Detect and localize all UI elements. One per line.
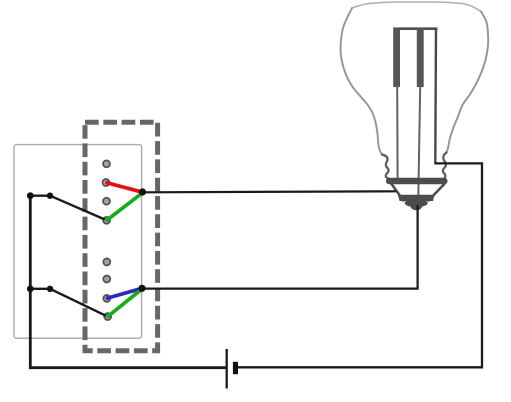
wire: bottom switch junction to bulb tip [142,205,418,289]
S1 green wire from junction to lever contact [107,193,143,220]
battery short thick plate [233,362,238,374]
S2 contact 2 [103,276,110,283]
bulb lead wire left thin [396,86,398,179]
S2 input stub wire [30,288,50,290]
S1 contact 2 (red feed) [103,179,110,186]
S2 selected contact [104,313,111,320]
S2 contact 1 [103,258,110,265]
bulb glass envelope [341,2,489,155]
S2 blue wire to contact 3 [107,288,142,298]
S1 red wire to contact 2 [107,183,143,192]
wire: top switch junction to bulb base [143,191,397,192]
bulb base cone band [398,195,435,201]
top switch S1 [27,160,146,224]
bulb base tip [405,199,428,207]
wire: left common down and along bottom to battery negative [30,196,226,368]
S2 lever [50,289,106,316]
bulb base cone outline [392,184,445,201]
bulb stem right wire [434,28,437,163]
S1 selected contact [103,217,110,224]
S1 stub node dots [27,192,34,199]
switch enclosure box (light grey) [14,145,142,339]
S1 contact 3 [103,198,110,205]
S1 contact 1 [103,160,110,167]
bulb neck screw ridges right [443,153,447,179]
S1 lever [50,196,105,220]
S1 input stub wire [30,194,50,196]
S1 output junction [139,188,146,195]
bulb lead wire middle thin [418,86,420,197]
wire: bulb side to right edge, down, to battery positive [238,163,482,367]
bulb stem top bar [394,27,438,30]
S2 contact 3 (blue feed) [103,295,110,302]
bottom switch S2 [27,258,146,320]
bulb neck screw ridges left [382,155,389,179]
S2 output junction [138,285,145,292]
S2 stub node dots [27,285,34,292]
S2 green wire from junction to lever contact [108,289,142,316]
bulb filament support bar left [393,28,400,88]
bulb base collar bar [386,178,448,185]
battery long plate (negative left, long thin = positive) [226,349,228,389]
dashed selector region box [85,122,158,351]
bulb filament support bar middle [417,28,424,88]
